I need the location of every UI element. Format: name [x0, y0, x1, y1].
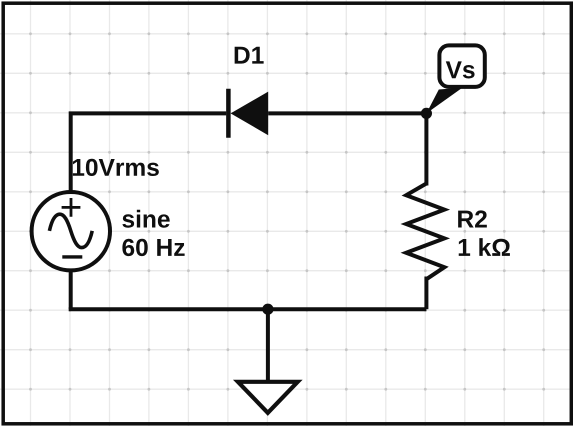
plus symbol [62, 198, 81, 217]
label R2 [458, 210, 487, 227]
diode D1 triangle (pointing left) [231, 92, 269, 136]
ground triangle [238, 382, 298, 413]
value 1 kOhm [459, 238, 510, 256]
minus symbol [62, 255, 82, 258]
label Vs [446, 61, 475, 78]
ground stub wire [266, 309, 270, 381]
wire: bottom rail [69, 307, 427, 311]
wire: source top to diode (left vertical + top horizontal) [71, 113, 227, 192]
node Vs junction dot [421, 108, 432, 119]
ground junction dot [262, 304, 273, 315]
resistor R2 zigzag [406, 184, 444, 280]
diode D1 cathode bar [226, 89, 231, 138]
wire: source bottom to bottom rail [69, 271, 73, 310]
Vs flag box [439, 45, 484, 87]
value 60 Hz [122, 239, 184, 256]
wire: resistor R2 bottom to bottom rail [424, 277, 428, 310]
wire: diode cathode side to node Vs [268, 111, 426, 115]
Vs flag pointer tail [426, 88, 462, 114]
value 10Vrms [73, 159, 159, 176]
label D1 [235, 47, 264, 64]
value sine [122, 210, 169, 228]
sine wave symbol [49, 214, 92, 247]
voltage source circle [32, 192, 110, 270]
wire: node Vs down to resistor R2 top [424, 111, 428, 185]
